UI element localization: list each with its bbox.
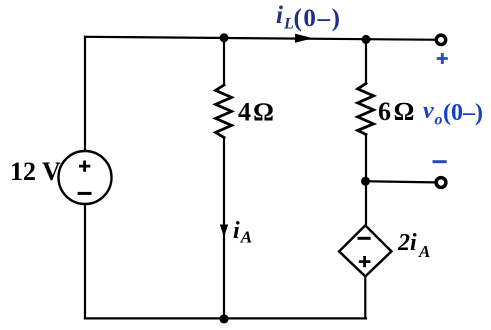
svg-text:4: 4 <box>238 98 251 127</box>
svg-text:12 V: 12 V <box>10 157 61 186</box>
svg-text:A: A <box>240 228 252 247</box>
svg-text:i: i <box>233 218 240 244</box>
svg-text:L: L <box>283 16 294 33</box>
svg-text:(0–): (0–) <box>443 100 483 126</box>
svg-text:o: o <box>435 112 443 129</box>
svg-text:v: v <box>423 98 434 124</box>
svg-text:2i: 2i <box>397 230 417 256</box>
svg-text:6: 6 <box>378 97 391 126</box>
svg-text:i: i <box>276 2 283 29</box>
svg-text:(0–): (0–) <box>294 5 342 32</box>
svg-text:A: A <box>418 242 430 261</box>
svg-text:Ω: Ω <box>394 97 414 126</box>
svg-text:Ω: Ω <box>254 98 274 127</box>
